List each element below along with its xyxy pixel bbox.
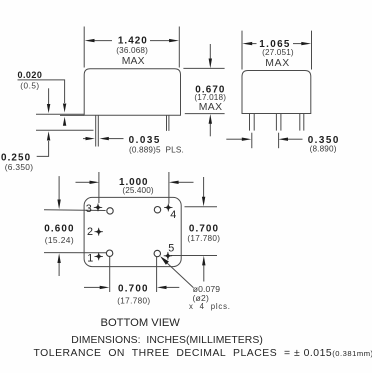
- dim 0.600 arrow lines: [58, 176, 60, 200]
- dim 0.700 bottom extension lines: [109, 257, 111, 293]
- svg-text:4: 4: [170, 209, 176, 221]
- hole near pin 4: [154, 207, 160, 213]
- leader dia 0.079: [162, 258, 194, 288]
- dim 1.000 dimension line: [76, 181, 91, 183]
- leader arrowhead dia 0.079: [160, 256, 169, 265]
- svg-text:5: 5: [168, 243, 174, 255]
- svg-text:2: 2: [87, 226, 93, 238]
- dim 1.065 extension lines: [241, 31, 243, 70]
- svg-text:DIMENSIONS: INCHES(MILLIMETER: DIMENSIONS: INCHES(MILLIMETERS): [71, 335, 263, 346]
- pin bottom line: [36, 129, 94, 131]
- dim 0.020 leader: [18, 80, 65, 103]
- svg-text:0.035: 0.035: [129, 135, 161, 146]
- svg-text:(17.018): (17.018): [194, 93, 226, 102]
- dim 0.700 bottom arrowheads: [100, 286, 110, 289]
- dim 1.000 extension lines: [98, 172, 100, 203]
- seating plane line: [36, 113, 84, 115]
- dim 0.670 arrowheads: [209, 59, 212, 69]
- dim 0.670 arrow lines: [209, 44, 211, 60]
- dim 0.350 arrowheads: [242, 138, 252, 141]
- dim 0.020 arrowheads: [63, 104, 66, 113]
- svg-text:MAX: MAX: [265, 58, 290, 69]
- end view pin 1: [249, 114, 251, 131]
- end view pin 3: [299, 114, 301, 131]
- svg-text:(0.5): (0.5): [20, 82, 39, 91]
- svg-text:(15.24): (15.24): [45, 235, 74, 245]
- svg-text:0.700: 0.700: [118, 284, 149, 295]
- arrowheads: [47, 39, 311, 289]
- dim 0.250 top arrow line: [48, 88, 50, 104]
- dim 0.700 right arrowheads: [202, 197, 205, 207]
- dim 0.350 extension lines: [251, 133, 253, 149]
- svg-text:x 4 plcs.: x 4 plcs.: [189, 302, 231, 311]
- svg-text:(25.400): (25.400): [122, 186, 153, 195]
- dim 0.700 right extension line top: [185, 206, 218, 208]
- svg-text:BOTTOM VIEW: BOTTOM VIEW: [101, 317, 181, 329]
- side view left pin: [95, 116, 97, 147]
- svg-text:MAX: MAX: [199, 102, 223, 113]
- svg-text:(36.068): (36.068): [116, 46, 148, 55]
- package bottom stub line: [60, 114, 84, 116]
- svg-text:(27.051): (27.051): [262, 48, 294, 57]
- dim 0.035 arrowheads: [86, 137, 95, 140]
- svg-text:(17.780): (17.780): [187, 234, 220, 243]
- dim 1.420 arrowheads: [85, 39, 95, 42]
- svg-text:TOLERANCE ON THREE DECIMAL: TOLERANCE ON THREE DECIMAL PLACES = ± 0.…: [34, 348, 372, 359]
- dim 0.350 dimension line: [226, 138, 242, 140]
- svg-text:(0.889)5 PLS.: (0.889)5 PLS.: [129, 146, 184, 155]
- dim 0.600 arrowheads: [57, 200, 60, 210]
- dim 0.600 extension line top: [44, 209, 106, 212]
- dim 0.700 right arrow lines: [203, 177, 205, 198]
- pin 1 cross: [95, 253, 103, 261]
- dim 1.000 arrowheads: [90, 181, 100, 184]
- side view package outline: [84, 69, 180, 116]
- svg-text:(17.780): (17.780): [117, 296, 150, 305]
- svg-text:3: 3: [86, 203, 92, 215]
- svg-text:(6.350): (6.350): [5, 162, 34, 172]
- dim 0.250 arrowheads: [47, 104, 50, 113]
- dim 1.420 dimension line: [93, 40, 112, 42]
- pin 4 cross: [164, 204, 172, 212]
- pin 2 cross: [95, 228, 103, 236]
- bottom view pin crosses: [94, 204, 173, 261]
- hole near pin 5: [154, 250, 160, 256]
- dim 0.670 extension lines: [183, 67, 224, 69]
- hole near pin 1: [106, 250, 112, 256]
- pin 5 cross: [164, 252, 172, 260]
- pin 3 cross: [94, 204, 102, 212]
- svg-text:1: 1: [87, 252, 93, 264]
- dim 0.035 dimension line: [83, 138, 86, 140]
- svg-text:MAX: MAX: [122, 56, 145, 67]
- end view pin 2: [275, 114, 277, 131]
- bottom view package outline: [84, 197, 181, 266]
- svg-text:(8.890): (8.890): [310, 145, 337, 154]
- end view package outline: [242, 71, 311, 114]
- dim 0.250 leader: [37, 141, 49, 156]
- dim 0.700 right extension line bottom: [171, 255, 217, 257]
- svg-text:0.020: 0.020: [18, 70, 43, 80]
- dim 1.420 extension lines: [83, 27, 85, 68]
- svg-text:0.600: 0.600: [44, 224, 74, 235]
- side view right pin: [166, 116, 168, 131]
- dim 1.065 dimension line: [250, 43, 257, 45]
- dim 1.065 arrowheads: [242, 42, 252, 45]
- bottom view pin hole circles: [106, 207, 160, 257]
- hole near pin 3: [107, 208, 113, 214]
- dim 0.600 extension line bottom: [44, 252, 106, 254]
- dim 0.700 bottom dimension line: [84, 286, 100, 288]
- svg-text:0.700: 0.700: [189, 223, 219, 234]
